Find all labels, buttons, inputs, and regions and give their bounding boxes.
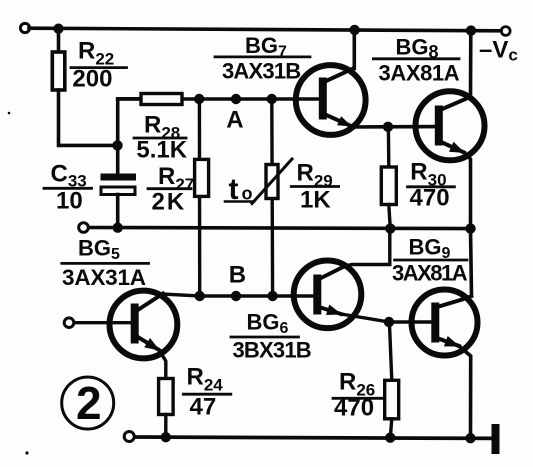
wire BG5 base lead [75,321,132,324]
svg-text:2: 2 [76,377,102,429]
terminal -Vc top-right [501,27,510,36]
label R27 / 2K [152,163,195,216]
node junction BG5 collector / R27 bottom [195,291,205,301]
transistor BG7 [296,65,366,135]
label R24 / 47 [187,364,224,421]
svg-text:3AX31A: 3AX31A [62,265,146,290]
svg-text:A: A [226,107,243,134]
fraction line BG5 [62,262,149,265]
label R30 / 470 [410,159,450,212]
wire BG7 emitter to BG8 base [351,125,436,129]
label R28 / 5.1K [136,112,187,164]
node junction R29 top [267,94,277,104]
fraction line R27 [148,187,191,190]
label R26 / 470 [334,369,375,422]
resistor R26 [385,380,399,419]
wire BG9 emitter down to ground rail [459,346,471,438]
wire R26 top lead [389,322,391,381]
svg-text:47: 47 [190,394,217,421]
fraction line R30 [408,185,455,188]
label BG5 / 3AX31A [62,236,146,291]
wire BG9 collector join [462,296,472,300]
fraction line R24 [183,393,231,396]
label R22 / 200 [72,38,114,93]
fraction line C33 [44,187,92,190]
node junction R30 bottom on output wire [385,223,395,233]
wire BG9 base lead [389,320,432,323]
node junction BG8 collector on rail [466,25,476,35]
node junction R29 bottom [267,291,277,301]
wire R24 bottom lead [164,415,167,438]
wire BG7 collector to rail [352,30,356,69]
resistor R24 [159,379,174,415]
node junction R24 bottom on rail [161,432,171,442]
fraction line BG7 [215,56,310,59]
wire R30 bottom lead [389,205,391,229]
wire R29 vertical branch [270,99,274,296]
label BG7 / 3AX31B [222,33,300,84]
svg-text:3AX81A: 3AX81A [392,261,468,286]
node B dot [231,291,241,301]
wire BG5 collector to node B [162,294,200,296]
node junction BG7 collector on rail [349,25,359,35]
svg-text:3AX31B: 3AX31B [222,59,300,84]
resistor R30 [381,167,396,205]
wire R22 top lead [57,29,61,53]
resistor R22 [52,52,65,90]
wire left vertical C33 branch [118,99,140,174]
svg-text:1K: 1K [300,187,331,214]
label t0 [229,173,253,206]
ground end bar [492,424,500,454]
label BG6 / 3BX31B [233,310,311,363]
terminal bottom-left [124,432,134,442]
label B [229,262,246,289]
wire R22 bottom lead to C33 node [59,90,118,145]
label -Vc [479,37,518,65]
fraction line BG6 [231,336,299,339]
wire BG6 collector to output node [345,229,390,266]
fraction line R29 [291,185,338,188]
svg-text:10: 10 [56,188,83,215]
fraction line R22 [71,66,127,69]
wire node B horizontal [200,294,316,297]
thermistor R29 body [266,165,278,199]
transistor BG6 [294,261,362,329]
fraction line BG9 [395,259,467,262]
wire right rail BG8 emitter to BG9 collector [471,229,472,296]
terminal top-left input [20,23,29,32]
node junction right rail on bottom rail [465,433,475,443]
svg-text:5.1K: 5.1K [136,137,187,164]
wire BG6 emitter to BG9 base node [341,314,389,322]
fraction line R26 [333,397,382,400]
node junction BG7 emitter / R30 / BG8 base [383,122,393,132]
resistor R27 [195,159,209,196]
node junction BG6 emitter / R26 / BG9 base [384,317,394,327]
node junction R27 top [194,94,204,104]
capacitor C33 bottom plate [101,187,135,195]
svg-text:B: B [229,262,246,289]
terminal output left [79,223,89,233]
node junction output right rail [465,223,475,233]
svg-text:2K: 2K [152,189,187,216]
label A [226,107,243,134]
transistor BG8 [416,91,485,160]
node junction R26 bottom on rail [385,433,395,443]
fraction line R28 [134,137,186,140]
label BG8 / 3AX81A [379,35,460,86]
node junction C33 bottom on output wire [113,223,123,233]
capacitor C33 top plate [101,174,137,181]
wire BG8 emitter down right rail [464,153,471,229]
thermistor R29 diagonal [252,159,292,204]
label R29 / 1K [297,159,333,213]
figure number circled 2 [62,377,114,429]
wire C33 bottom lead [116,195,120,228]
node junction R22/C33 [112,140,122,150]
wire BG5 emitter to R24 [159,350,166,379]
wire R27 vertical branch [198,99,202,296]
svg-text:3BX31B: 3BX31B [233,338,311,363]
underline t0 [225,200,254,203]
transistor BG5 [109,291,177,359]
fraction line BG8 [373,57,459,60]
terminal BG5 base input [64,318,74,328]
speck bottom-left [25,451,28,454]
transistor BG9 [412,290,478,356]
wire R30 top lead [387,127,391,167]
svg-text:3AX81A: 3AX81A [379,61,460,86]
wire output horizontal [89,228,471,229]
wire BG8 collector to rail [469,31,473,98]
resistor R28 [141,94,182,105]
wire top supply rail [29,28,501,31]
label C33 / 10 [51,161,87,215]
node junction R22 top [53,24,63,34]
svg-text:470: 470 [410,185,450,212]
wire node A horizontal [118,97,320,101]
svg-text:200: 200 [72,66,112,93]
node A dot [231,94,241,104]
wire R26 bottom lead [390,419,392,438]
speck top-left [8,112,11,115]
label BG9 / 3AX81A [392,235,468,286]
wire bottom rail [135,437,492,438]
